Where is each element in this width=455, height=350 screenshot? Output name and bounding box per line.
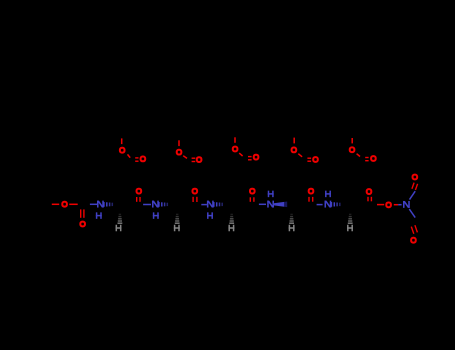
NHS ester: bond O-N (blue half) xyxy=(398,204,401,206)
ester group OBzl-4: bond O-CH2 (benzyl) xyxy=(293,138,295,144)
residue 1: atom H label (stereo) xyxy=(116,225,118,232)
succinimide: atom O label bottom xyxy=(411,238,416,243)
residue 5: atom H label on N xyxy=(325,191,327,198)
ester group OBzl-1: bond O-C(=O) xyxy=(128,154,131,157)
ester group OBzl-1: double bond C=O xyxy=(135,157,138,159)
residue 3: atom O label (amide carbonyl) xyxy=(250,189,255,194)
residue 2: double bond C=O (amide) xyxy=(192,197,194,202)
residue 3: atom H label (stereo) xyxy=(228,225,230,232)
ester group OBzl-5: double bond C=O xyxy=(365,157,368,159)
residue 2: atom O label (amide carbonyl) xyxy=(193,189,198,194)
residue 5: hashed wedge Calpha-H xyxy=(349,213,351,215)
residue 4: atom O label (amide carbonyl) xyxy=(309,189,314,194)
ester group OBzl-1: atom O label (carbonyl) xyxy=(141,157,146,162)
ester group OBzl-4: atom O label (carbonyl) xyxy=(313,157,318,162)
Cbz carbamate: atom O label (ester O) xyxy=(62,202,67,207)
ester group OBzl-3: bond O-CH2 (benzyl) xyxy=(234,137,236,143)
ester group OBzl-5: atom O label xyxy=(350,147,355,152)
ester group OBzl-3: atom O label xyxy=(233,147,238,152)
residue 2: bond C(=O)-N (amide) xyxy=(143,204,151,206)
ester group OBzl-3: bond O-C(=O) xyxy=(239,153,242,156)
residue 2: atom N label xyxy=(152,201,154,208)
residue 3: hashed stereo wedge N-Calpha xyxy=(213,202,215,207)
NHS ester: bond O-N (red half) xyxy=(394,204,398,206)
ester group OBzl-5: atom O label (carbonyl) xyxy=(371,156,376,161)
residue 2: atom H label (stereo) xyxy=(174,225,176,232)
residue 1: double bond C=O (amide) xyxy=(136,197,138,202)
residue 3: bond C(=O)-N (amide) xyxy=(201,204,207,206)
residue 4: double bond C=O (amide) xyxy=(308,197,310,202)
ester group OBzl-5: bond O-C(=O) xyxy=(357,154,360,157)
residue 5: hashed stereo wedge N-Calpha xyxy=(330,202,332,207)
residue 1: hashed wedge Calpha-H xyxy=(119,213,121,215)
residue 5: bond C(=O)-N (amide) xyxy=(317,204,323,206)
residue 3: atom H label on N xyxy=(207,212,209,219)
ester group OBzl-2: bond O-C(=O) xyxy=(183,156,187,159)
residue 1: atom N label xyxy=(97,201,99,208)
residue 4: solid stereo wedge N-Calpha xyxy=(274,202,285,207)
Cbz carbamate: bond CH2-O (benzyl side) xyxy=(52,203,59,205)
ester group OBzl-1: bond O-CH2 (benzyl) xyxy=(121,138,123,144)
succinimide: bond N-C(=O) top xyxy=(410,191,416,199)
residue 4: atom H label on N xyxy=(268,191,270,198)
residue 1: atom H label on N xyxy=(96,212,98,219)
ester group OBzl-2: atom O label xyxy=(177,150,182,155)
residue 2: hashed stereo wedge N-Calpha xyxy=(158,202,160,207)
residue 4: hashed wedge Calpha-H xyxy=(290,213,292,215)
C-terminal ester: double bond C=O xyxy=(367,197,369,202)
succinimide: double bond C=O top xyxy=(412,183,414,189)
residue 4: atom N label xyxy=(267,201,269,208)
succinimide: atom O label top xyxy=(413,175,418,180)
ester group OBzl-2: double bond C=O xyxy=(192,157,196,159)
ester group OBzl-2: atom O label (carbonyl) xyxy=(197,157,202,162)
succinimide: atom N label xyxy=(403,201,405,208)
residue 3: atom N label xyxy=(207,201,209,208)
residue 1: hashed stereo wedge N-Calpha xyxy=(103,202,105,207)
residue 5: atom H label (stereo) xyxy=(347,225,349,232)
residue 3: double bond C=O (amide) xyxy=(249,197,251,202)
residue 3: hashed wedge Calpha-H xyxy=(231,213,233,215)
C-terminal ester: atom O label (carbonyl) xyxy=(367,189,372,194)
ester group OBzl-3: double bond C=O xyxy=(248,156,252,158)
residue 2: atom H label on N xyxy=(153,212,155,219)
Cbz carbamate: double bond C=O xyxy=(80,209,82,217)
residue 4: atom H label (stereo) xyxy=(289,225,291,232)
ester group OBzl-2: bond O-CH2 (benzyl) xyxy=(178,140,180,146)
residue 1: atom O label (amide carbonyl) xyxy=(137,189,142,194)
residue 4: bond C(=O)-N (amide) xyxy=(259,203,266,205)
ester group OBzl-3: atom O label (carbonyl) xyxy=(254,155,259,160)
C-terminal ester: bond C-O xyxy=(377,204,384,206)
succinimide: double bond C=O bottom xyxy=(411,227,414,234)
Cbz carbamate: bond O-C(=O) xyxy=(69,203,77,205)
ester group OBzl-4: atom O label xyxy=(292,148,297,153)
NHS ester: atom O label (linking O) xyxy=(386,202,391,207)
ester group OBzl-4: double bond C=O xyxy=(307,157,311,159)
residue 1: bond C(=O)-N (amide) xyxy=(90,203,97,205)
Cbz carbamate: atom O label (carbonyl) xyxy=(80,222,85,227)
ester group OBzl-1: atom O label xyxy=(120,148,125,153)
residue 2: hashed wedge Calpha-H xyxy=(176,213,178,215)
ester group OBzl-5: bond O-CH2 (benzyl) xyxy=(351,138,353,143)
residue 5: atom N label xyxy=(325,201,327,208)
ester group OBzl-4: bond O-C(=O) xyxy=(298,154,302,157)
succinimide: bond N-C(=O) bottom xyxy=(409,209,415,218)
